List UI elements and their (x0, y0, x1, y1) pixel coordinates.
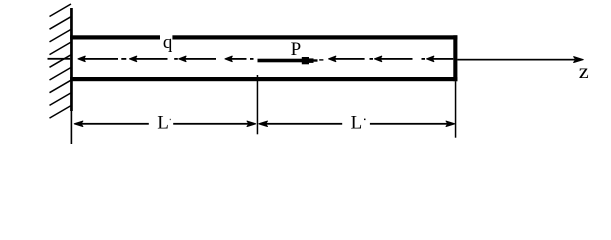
left dimension line, left segment (80, 123, 149, 125)
right dimension line, right segment (370, 123, 449, 125)
dash (422, 58, 426, 60)
svg-text:L: L (351, 113, 363, 134)
right dimension line, left segment (264, 123, 342, 125)
beam bottom line (70, 77, 457, 81)
svg-text:L: L (157, 113, 169, 134)
distributed load arrow 1 (78, 56, 118, 61)
force P arrow (thick, pointing right) (258, 57, 318, 64)
left dimension arrowhead (points left at wall) (74, 121, 83, 126)
distributed load arrow 6 (375, 56, 413, 61)
dash (121, 58, 126, 60)
svg-text:P: P (291, 39, 302, 60)
beam right end cap (453, 35, 457, 81)
right dimension arrowhead (points left at middle tick) (259, 121, 268, 126)
small dot after right L (364, 119, 366, 121)
wall hatching (50, 4, 72, 118)
left dimension line, right segment (173, 123, 250, 125)
wall line (fixed support) (70, 8, 73, 111)
beam top line (left of q gap) (70, 35, 160, 39)
distributed load arrow 2 (130, 56, 168, 61)
dash (250, 58, 254, 60)
dash (370, 58, 374, 60)
svg-text:q: q (163, 32, 173, 53)
distributed load arrow 4 (225, 56, 247, 61)
left dimension arrowhead (points right at middle tick) (247, 121, 256, 126)
distributed load arrow 3 (179, 56, 216, 61)
dash (174, 58, 178, 60)
small dot after left L (170, 119, 171, 120)
right dimension arrowhead (points right at free end) (446, 121, 455, 126)
centerline dash left of wall (48, 58, 71, 60)
middle extension line (tick at x=L) (257, 75, 259, 134)
z axis line (457, 59, 575, 61)
extension line below wall (71, 111, 73, 144)
dash after P arrow (319, 59, 323, 60)
distributed load arrow 5 (329, 56, 365, 61)
distributed load arrow 7 (427, 56, 454, 61)
z axis arrowhead (574, 57, 584, 63)
right extension line (tick at free end) (455, 81, 457, 138)
beam top line (right of q gap) (172, 35, 457, 39)
svg-text:z: z (579, 61, 589, 83)
